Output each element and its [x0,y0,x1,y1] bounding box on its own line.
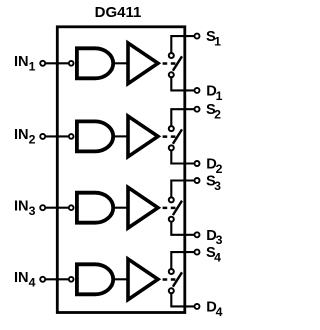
input terminal IN1 pin [40,61,45,66]
svg-text:S3: S3 [206,174,221,193]
svg-text:S1: S1 [206,29,221,48]
driver buffer A1 [128,43,158,84]
terminal S3 pin [195,178,200,183]
inverter bubble channel 3 [69,205,74,210]
terminal D4 pin [195,304,200,309]
wire switch SW1 to D1 [171,77,194,90]
logic gate G2 [77,121,113,151]
dashed control line channel 4 [163,278,176,281]
switch SW3 bottom contact [169,217,174,222]
inverter bubble channel 2 [69,134,74,139]
wire switch SW3 to D3 [171,222,194,235]
IC body outline U1 [57,27,185,313]
input terminal IN4 pin [40,277,45,282]
driver buffer A4 [128,259,158,300]
svg-text:S2: S2 [206,102,221,121]
wire switch SW3 to S3 [171,181,194,198]
dashed control line channel 3 [163,207,176,210]
driver buffer A3 [128,187,158,228]
logic gate G1 [77,48,113,78]
wire gate G1 to driver [113,62,128,64]
switch SW2 top contact [169,126,174,131]
switch SW1 bottom contact [169,72,174,77]
logic gate G3 [77,193,113,223]
switch SW4 arm [173,272,182,286]
wire gate G2 to driver [113,135,128,137]
switch SW3 top contact [169,197,174,202]
inverter bubble channel 4 [69,277,74,282]
svg-text:D1: D1 [206,83,222,102]
wire IN1 to gate input bubble [45,62,69,64]
svg-text:IN2: IN2 [14,127,36,146]
wire switch SW4 to D4 [171,293,194,306]
wire switch SW4 to S4 [171,252,194,269]
input terminal IN3 pin [40,205,45,210]
switch SW2 bottom contact [169,145,174,150]
terminal D3 pin [195,232,200,237]
wire switch SW1 to S1 [171,36,194,53]
switch SW3 arm [173,201,182,215]
driver buffer A2 [128,116,158,157]
terminal D1 pin [195,88,200,93]
dashed control line channel 1 [163,62,176,65]
terminal S4 pin [195,250,200,255]
wire IN3 to gate input bubble [45,207,69,209]
terminal S1 pin [195,34,200,39]
wire gate G3 to driver [113,207,128,209]
terminal S2 pin [195,107,200,112]
logic gate G4 [77,264,113,294]
dashed control line channel 2 [163,135,176,138]
svg-text:D4: D4 [206,299,222,318]
wire gate G4 to driver [113,278,128,280]
switch SW2 arm [173,129,182,143]
switch SW4 top contact [169,269,174,274]
wire switch SW2 to S2 [171,109,194,126]
input terminal IN2 pin [40,134,45,139]
wire IN2 to gate input bubble [45,135,69,137]
inverter bubble channel 1 [69,61,74,66]
svg-text:IN3: IN3 [14,198,36,217]
wire switch SW2 to D2 [171,150,194,163]
switch SW1 top contact [169,53,174,58]
svg-text:IN1: IN1 [14,54,36,73]
wire IN4 to gate input bubble [45,278,69,280]
svg-text:IN4: IN4 [14,270,36,289]
svg-text:DG411: DG411 [95,4,142,21]
switch SW1 arm [173,56,182,70]
svg-text:S4: S4 [206,245,221,264]
switch SW4 bottom contact [169,288,174,293]
terminal D2 pin [195,161,200,166]
